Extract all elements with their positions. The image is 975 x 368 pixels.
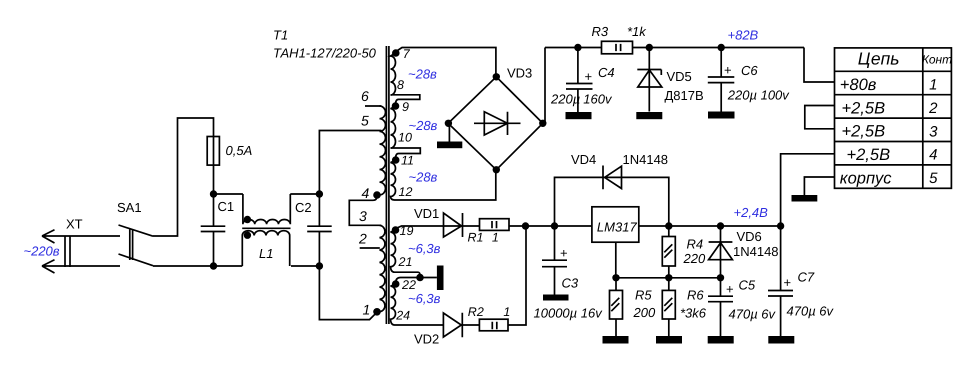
svg-text:корпус: корпус: [840, 170, 892, 188]
svg-text:1: 1: [503, 305, 510, 319]
svg-text:ТАН1-127/220-50: ТАН1-127/220-50: [273, 46, 377, 61]
svg-text:VD5: VD5: [667, 69, 692, 84]
svg-text:+80в: +80в: [840, 76, 877, 94]
svg-text:1N4148: 1N4148: [623, 152, 669, 167]
svg-text:10000µ 16v: 10000µ 16v: [534, 305, 604, 320]
svg-text:11: 11: [401, 154, 414, 168]
svg-text:+: +: [585, 69, 593, 84]
svg-text:9: 9: [402, 100, 409, 114]
svg-text:R2: R2: [468, 305, 484, 319]
svg-text:*3k6: *3k6: [680, 305, 707, 320]
svg-text:4: 4: [929, 147, 937, 164]
svg-text:+2,4В: +2,4В: [734, 205, 769, 220]
svg-text:Д817В: Д817В: [665, 88, 704, 103]
svg-text:L1: L1: [259, 246, 273, 261]
svg-text:160v: 160v: [583, 91, 613, 106]
svg-text:1: 1: [492, 230, 499, 244]
svg-text:1: 1: [363, 302, 371, 318]
svg-text:~6,3в: ~6,3в: [408, 291, 441, 306]
svg-text:VD1: VD1: [414, 206, 439, 221]
svg-text:1N4148: 1N4148: [733, 244, 779, 259]
svg-text:220µ 100v: 220µ 100v: [727, 87, 790, 102]
svg-text:R4: R4: [687, 237, 704, 252]
svg-text:+: +: [784, 275, 792, 290]
svg-text:+: +: [724, 63, 732, 78]
svg-text:200: 200: [633, 305, 656, 320]
svg-text:470µ 6v: 470µ 6v: [729, 307, 777, 322]
svg-text:4: 4: [362, 185, 370, 201]
svg-text:+: +: [726, 282, 734, 297]
svg-text:8: 8: [397, 78, 404, 92]
svg-text:Цепь: Цепь: [858, 49, 900, 69]
svg-text:Конт: Конт: [922, 53, 952, 67]
svg-text:T1: T1: [273, 27, 288, 42]
svg-text:~28в: ~28в: [409, 118, 438, 133]
svg-text:10: 10: [398, 131, 412, 145]
svg-text:5: 5: [361, 113, 369, 129]
svg-text:22: 22: [401, 278, 416, 292]
svg-text:19: 19: [400, 224, 414, 238]
svg-text:VD4: VD4: [571, 152, 596, 167]
svg-text:~6,3в: ~6,3в: [408, 241, 441, 256]
svg-text:C6: C6: [741, 63, 758, 78]
svg-text:+2,5В: +2,5В: [847, 146, 891, 164]
svg-text:21: 21: [398, 255, 413, 269]
svg-text:+2,5В: +2,5В: [842, 123, 886, 141]
svg-text:220µ: 220µ: [550, 91, 580, 106]
svg-text:R6: R6: [687, 288, 704, 303]
svg-text:~28в: ~28в: [409, 170, 438, 185]
svg-text:220: 220: [683, 251, 706, 266]
svg-text:3: 3: [929, 123, 938, 140]
svg-text:0,5A: 0,5A: [226, 143, 253, 158]
svg-text:+: +: [560, 246, 568, 261]
svg-text:+2,5В: +2,5В: [842, 99, 886, 117]
svg-text:SA1: SA1: [117, 200, 142, 215]
svg-text:VD6: VD6: [737, 229, 762, 244]
svg-text:C1: C1: [218, 199, 235, 214]
svg-text:+82В: +82В: [728, 28, 759, 43]
svg-text:LM317: LM317: [597, 220, 638, 235]
svg-text:6: 6: [361, 88, 369, 104]
svg-text:C3: C3: [562, 276, 579, 291]
svg-text:C4: C4: [598, 65, 615, 80]
svg-text:R5: R5: [635, 288, 652, 303]
svg-text:7: 7: [403, 47, 411, 61]
svg-text:2: 2: [358, 231, 367, 247]
svg-text:VD3: VD3: [507, 66, 532, 81]
svg-text:~220в: ~220в: [24, 243, 60, 258]
svg-text:R1: R1: [468, 230, 484, 244]
svg-text:*1k: *1k: [627, 24, 647, 39]
svg-text:C2: C2: [295, 200, 312, 215]
svg-text:1: 1: [929, 77, 937, 94]
svg-text:VD2: VD2: [414, 332, 439, 347]
svg-text:XT: XT: [66, 217, 83, 232]
svg-text:C7: C7: [798, 270, 815, 285]
svg-text:2: 2: [928, 100, 938, 117]
svg-text:3: 3: [359, 208, 367, 224]
svg-text:470µ 6v: 470µ 6v: [787, 304, 835, 319]
svg-text:12: 12: [399, 185, 413, 199]
svg-text:R3: R3: [592, 24, 609, 39]
svg-text:24: 24: [395, 309, 410, 323]
svg-text:5: 5: [929, 170, 938, 187]
svg-text:C5: C5: [739, 278, 756, 293]
svg-text:~28в: ~28в: [408, 67, 437, 82]
